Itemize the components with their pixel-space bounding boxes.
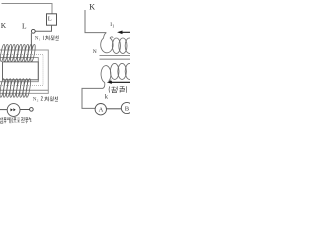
svg-text:L: L xyxy=(48,15,52,22)
svg-text:1: 1 xyxy=(29,118,32,124)
svg-text:L: L xyxy=(22,22,27,31)
svg-text:1: 1 xyxy=(112,23,114,28)
svg-text:K: K xyxy=(1,21,7,30)
svg-text:N: N xyxy=(93,49,97,55)
svg-text:K: K xyxy=(89,3,95,12)
svg-text:A: A xyxy=(99,107,104,114)
svg-text:B: B xyxy=(125,105,130,112)
